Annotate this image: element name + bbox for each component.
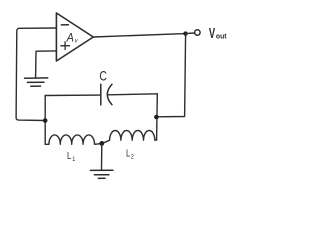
inductor L1 (45, 135, 102, 144)
wire: op-amp output to output junction (93, 34, 185, 37)
op-amp Av (56, 13, 93, 61)
wire: top rail right segment (capacitor to right node) (109, 94, 158, 95)
wire: output junction down and left to tank right node (157, 34, 186, 117)
wire: tank left vertical (44, 96, 46, 145)
label L1 (67, 150, 76, 163)
svg-text:L: L (67, 150, 71, 161)
wire: top rail left segment (left node to capacitor) (45, 94, 101, 96)
wire: tank junction to ground (101, 143, 103, 170)
wire: non-inverting input to ground (36, 51, 57, 78)
node: L1-L2 junction (99, 141, 104, 146)
label C (99, 68, 107, 84)
svg-text:out: out (216, 33, 227, 40)
node: output junction (183, 31, 187, 35)
svg-text:C: C (99, 68, 107, 84)
node: tank right (154, 115, 159, 120)
terminal Vout (open circle) (195, 30, 200, 35)
wire: feedback from inverting input down to tank left node (16, 28, 56, 121)
inductor L2 (102, 130, 157, 143)
svg-text:A: A (66, 32, 74, 44)
label Vout (209, 25, 227, 42)
label L2 (126, 147, 134, 160)
label Av (gain) (66, 32, 79, 45)
svg-text:L: L (126, 147, 130, 158)
svg-text:V: V (209, 25, 216, 42)
wire: junction to output terminal (186, 32, 195, 35)
capacitor C (101, 84, 112, 105)
ground (tank center) (90, 170, 113, 178)
wire: tank right vertical (top rail corner down to L2) (156, 94, 159, 140)
node: tank left (43, 118, 48, 123)
ground (op-amp non-inverting input) (25, 78, 48, 86)
